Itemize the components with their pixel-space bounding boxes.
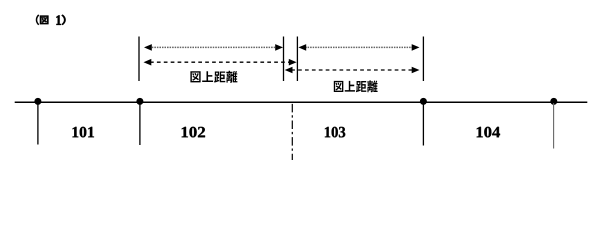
lower tick below point 1 <box>37 103 39 145</box>
title (図 1) <box>36 15 65 25</box>
parcel number 101 <box>72 127 93 138</box>
station point 2 <box>136 98 143 105</box>
dotted dimension arrow right (tick C to tick D) <box>298 44 419 51</box>
lower tick below point 3 <box>422 103 424 146</box>
label 図上距離 (right) <box>334 80 378 92</box>
parcel number 102 <box>182 127 205 138</box>
tick D (upper boundary line at parcel 103 right) <box>422 37 424 82</box>
lower tick below point 2 <box>139 103 141 145</box>
dashed dimension arrow left: 図上距離 span (tick A to tick C) <box>144 59 297 66</box>
parcel number 103 <box>325 127 345 138</box>
dash-dot boundary centerline between 102 and 103 <box>291 104 293 160</box>
tick B (upper boundary line left of centerline) <box>283 37 285 82</box>
main survey line <box>15 101 588 103</box>
station point 1 <box>34 98 41 105</box>
tick A (upper boundary line at parcel 102 left) <box>138 37 140 82</box>
tick C (upper boundary line right of centerline) <box>296 37 298 82</box>
station point 3 <box>420 98 427 105</box>
parcel number 104 <box>477 127 500 138</box>
dotted dimension arrow left (tick A to tick B) <box>144 44 283 51</box>
label 図上距離 (left) <box>190 71 237 83</box>
dashed dimension arrow right: 図上距離 span (tick B to tick D) <box>285 67 420 74</box>
station point 4 <box>550 98 557 105</box>
lower tick below point 4 (gray) <box>553 103 555 149</box>
